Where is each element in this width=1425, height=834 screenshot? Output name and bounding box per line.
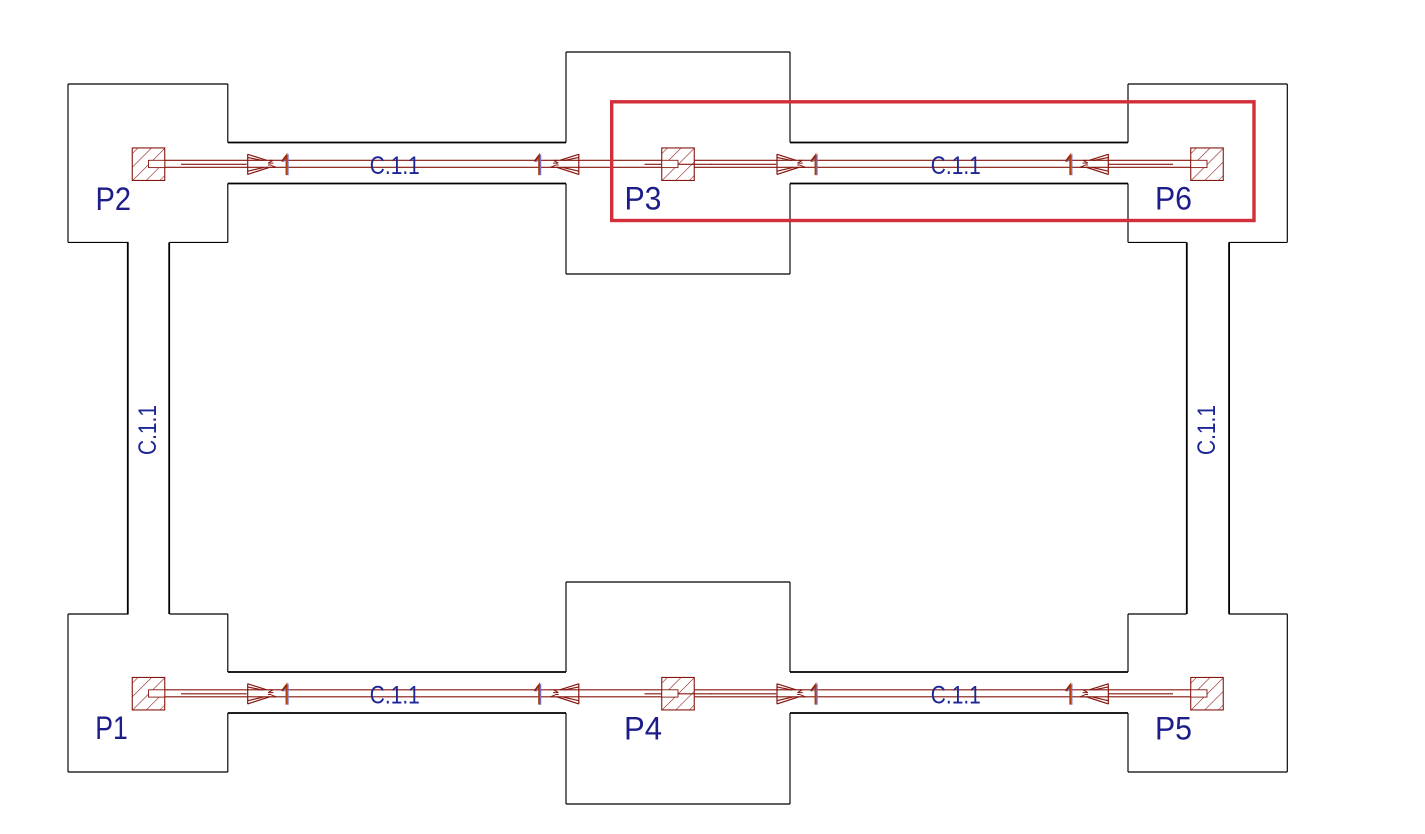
arrow right near P1 [248, 684, 276, 705]
svg-text:P4: P4 [624, 711, 662, 747]
beam C.1.1 lines P2-P3 [165, 160, 712, 167]
pile cap square P2 [132, 148, 165, 181]
arrow right near P4 east [777, 684, 805, 705]
wall top corridor P3-P6 [790, 143, 1128, 184]
tick label 1 (P3 west side) [535, 155, 541, 175]
arrow left near P5 [1080, 684, 1108, 705]
svg-text:P2: P2 [96, 181, 132, 217]
pile cap square P3 [662, 148, 695, 181]
beam C.1.1 lines P4-P5 [694, 690, 1191, 697]
wall bottom corridor P1-P4 [228, 672, 566, 713]
pier P3 outline [566, 52, 790, 274]
beam C.1.1 lines P3-P6 [694, 160, 1191, 167]
svg-text:C.1.1: C.1.1 [1194, 405, 1221, 455]
svg-text:C.1.1: C.1.1 [931, 682, 981, 709]
tick label 1 (P5 side) [1066, 685, 1072, 705]
pier P2 outline [68, 84, 228, 242]
wall right corridor P6-P5 [1187, 242, 1229, 614]
beam C.1.1 lines P1-P4 [165, 690, 712, 697]
wall left corridor P2-P1 [128, 242, 169, 614]
arrow left near P3 west [550, 154, 578, 175]
tick label 1 (P1 side) [282, 685, 288, 705]
tick label 1 (P6 side) [1066, 155, 1072, 175]
svg-text:P6: P6 [1155, 181, 1192, 217]
pile cap square P1 [132, 677, 165, 710]
arrow right near P3 east [777, 154, 805, 175]
arrow right near P2 [248, 154, 276, 175]
pier P4 outline [566, 582, 790, 804]
pier P1 outline [68, 614, 228, 772]
pile cap square P5 [1191, 677, 1224, 710]
svg-text:P1: P1 [95, 710, 128, 746]
tick label 1 (P4 east side) [811, 685, 817, 705]
pile cap square P6 [1191, 148, 1224, 181]
svg-text:P5: P5 [1155, 711, 1192, 747]
svg-text:C.1.1: C.1.1 [370, 153, 420, 180]
svg-text:C.1.1: C.1.1 [135, 405, 162, 455]
tick label 1 (P4 west side) [535, 685, 541, 705]
selection highlight rectangle [612, 102, 1254, 221]
svg-text:C.1.1: C.1.1 [370, 682, 420, 709]
arrow left near P6 [1080, 154, 1108, 175]
wall top corridor P2-P3 [228, 143, 566, 184]
tick label 1 (P2 side) [282, 155, 288, 175]
pier P5 outline [1128, 614, 1287, 772]
wall bottom corridor P4-P5 [790, 672, 1128, 713]
svg-text:C.1.1: C.1.1 [931, 153, 981, 180]
pier P6 outline [1128, 84, 1287, 242]
arrow left near P4 west [550, 684, 578, 705]
svg-text:P3: P3 [625, 181, 662, 217]
pile cap square P4 [662, 677, 695, 710]
tick label 1 (P3 east side) [811, 155, 817, 175]
